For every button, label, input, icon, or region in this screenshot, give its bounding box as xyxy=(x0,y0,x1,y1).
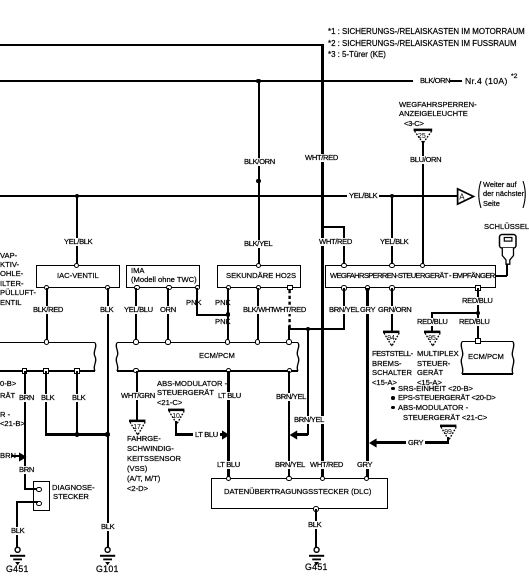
wire: BLK/WHT HO2S to ECM xyxy=(257,288,259,344)
svg-text:A: A xyxy=(459,193,465,202)
label *2 superscript xyxy=(511,73,517,81)
wire: GRY horizontal to main GRY xyxy=(372,441,449,443)
wire: YEL/BLK horizontal H3 xyxy=(0,195,458,197)
label FAHRGESCHWINDIGKEITSSENSOR xyxy=(127,435,161,443)
label BLK (DLC ground) xyxy=(308,521,321,529)
label cut <20-B> fragment xyxy=(0,380,16,388)
label ORN xyxy=(160,306,176,314)
continuation note text xyxy=(483,181,517,189)
junction BLK collector at x77 xyxy=(75,432,79,436)
wire: triangle 10 stub down xyxy=(175,421,177,435)
label ECM/PCM (right) xyxy=(468,353,504,361)
label WHT/RED (main vertical) xyxy=(305,154,338,162)
note *3 xyxy=(328,51,386,59)
label RED/BLU (top) xyxy=(462,297,492,305)
wire: BLU/ORN vertical xyxy=(422,141,424,265)
connector triangle 94 xyxy=(380,328,404,348)
pin ECM-mid bottom WHT/GRN xyxy=(133,368,138,373)
label PNK (HO2S) xyxy=(215,299,231,307)
label RED/BLU (left branch) xyxy=(417,318,447,326)
wire: splice to BRN/YEL run xyxy=(294,433,308,435)
label WHT/RED (HO2S) xyxy=(273,306,306,314)
label LT BLU (vertical) xyxy=(218,392,241,400)
pin ECM-mid top WHT/RED xyxy=(286,339,291,344)
pin WEG top 3 xyxy=(420,263,425,268)
label BLK (G101 wire) xyxy=(101,523,114,531)
pin DLC bottom xyxy=(313,506,318,511)
ground symbol G451 (DLC) xyxy=(307,546,327,568)
wire: ORN IMA to ECM xyxy=(167,288,169,344)
wire: key to immobilizer box xyxy=(506,264,508,276)
pin ECM-right top RED/BLU (square) xyxy=(475,338,480,343)
pin IAC top xyxy=(74,263,79,268)
wire: RED/BLU from immobilizer xyxy=(477,288,479,342)
wire: BLK/ORN -> BLK/YEL vertical to HO2S xyxy=(258,81,260,265)
wire: WHT/RED dashed from HO2S xyxy=(288,288,294,330)
page connector triangle A xyxy=(456,187,478,207)
wire: BLK from connector to G451 xyxy=(16,501,38,503)
pin DLC top LT BLU xyxy=(226,476,231,481)
pin SEK top xyxy=(256,263,261,268)
pin WEG bottom RED/BLU (square) xyxy=(475,285,480,290)
label Nr.4 (10A) xyxy=(465,77,508,85)
wire: splice drop x308 xyxy=(307,329,309,435)
connector triangle 25 (indicator lamp) xyxy=(410,126,438,146)
label ECM/PCM (middle) xyxy=(199,352,235,360)
wire: RED/BLU branch drop to multiplex xyxy=(431,312,433,332)
label BLK (ECM 2) xyxy=(72,394,85,402)
pin WEG bottom 2 xyxy=(365,285,370,290)
wire: WHT/RED branch corner to immobilizer xyxy=(321,226,345,228)
label cut RAET fragment xyxy=(0,392,15,400)
box: DATENUEBERTRAGUNGSSTECKER (DLC) xyxy=(211,478,388,509)
pin DIAGNOSE upper xyxy=(36,487,41,492)
arrow junction into LT BLU run xyxy=(220,430,232,440)
label BRN (upper) xyxy=(19,394,34,402)
label GRY (immobilizer) xyxy=(360,306,375,314)
label cut <21-B> fragment xyxy=(0,420,25,428)
svg-text:17: 17 xyxy=(133,424,141,431)
label BRN (left stub) xyxy=(0,452,16,460)
wire: BRN joining stub from left xyxy=(11,455,21,457)
label MULTIPLEX-STEUERGERAET xyxy=(417,350,459,358)
label BRN/YEL (immobilizer) xyxy=(329,306,359,314)
label SCHLUESSEL xyxy=(484,223,529,231)
label PNK (IMA) xyxy=(186,299,202,307)
bullet list of control units xyxy=(391,387,395,391)
label YEL/BLK (IAC drop) xyxy=(64,238,92,246)
label WHT/RED (DLC) xyxy=(310,461,343,469)
junction H3 to IAC drop xyxy=(75,194,79,198)
pin WEG top 1 xyxy=(341,263,346,268)
ground symbol G101 xyxy=(98,546,118,568)
wire: GRN/ORN from immobilizer xyxy=(391,288,393,332)
label GRY (DLC) xyxy=(357,461,372,469)
label BLK/ORN (fuse feed) xyxy=(420,77,450,85)
ground symbol G451 (left) xyxy=(8,546,28,568)
label WHT/GRN xyxy=(121,392,155,400)
label FESTSTELL-BREMS-SCHALTER xyxy=(372,350,413,358)
connector triangle 17 xyxy=(126,417,150,437)
label YEL/BLK (immobilizer drop) xyxy=(380,238,408,246)
wire: BRN/YEL from immobilizer down xyxy=(343,288,345,329)
wire: LT BLU branch horizontal xyxy=(175,433,223,435)
pin ECM-left bottom BLK 2 (square) xyxy=(74,368,79,373)
box: ECM/PCM right section (torn both edges) xyxy=(462,341,513,342)
label BLK (G451 wire) xyxy=(11,527,24,535)
wire: PNK from HO2S to ECM xyxy=(227,288,229,344)
wire: WHT/RED main vertical xyxy=(321,44,323,479)
label G101 xyxy=(96,565,119,573)
box: WEGFAHRSPERREN-STEUERGERAET - EMPFAENGER xyxy=(325,265,496,289)
junction H3 to immobilizer drop xyxy=(390,194,394,198)
wire: BLK from ECM pin 3 xyxy=(76,371,78,436)
wire: WHT/RED solid into ECM xyxy=(288,326,290,343)
wire: triangle 99 stub down xyxy=(447,437,449,444)
wire: BRN from ECM xyxy=(24,371,26,490)
wire: BRN into connector xyxy=(24,488,38,490)
label WHT/RED (branch) xyxy=(319,238,352,246)
junction on splice horizontal xyxy=(306,327,310,331)
label DIAGNOSE-STECKER xyxy=(52,484,95,492)
pin WEG bottom 3 xyxy=(389,285,394,290)
pin ECM-mid top PNK xyxy=(225,339,230,344)
wire: top feed horizontal H1 xyxy=(0,44,323,46)
pin ECM-mid bottom BRN/YEL xyxy=(287,368,292,373)
label cut R - fragment xyxy=(0,411,10,419)
key symbol xyxy=(495,230,521,268)
wire: YEL/BLK drop to immobilizer xyxy=(391,196,393,265)
wire: BRN/YEL from ECM to DLC xyxy=(288,371,290,479)
pin ECM-left top (BLK/RED) xyxy=(44,339,49,344)
svg-text:99: 99 xyxy=(444,429,452,436)
svg-text:95: 95 xyxy=(428,335,436,342)
wire: YEL/BLU IMA to ECM xyxy=(135,288,137,344)
box: IMA xyxy=(126,265,200,288)
wire: GRY from immobilizer to DLC xyxy=(366,288,368,479)
wire: BLK from DLC to G451 xyxy=(315,509,317,548)
wire: PNK from IMA, jog right xyxy=(196,288,198,316)
label G451 (left) xyxy=(6,565,29,573)
pin SEK bottom 2 xyxy=(256,285,261,290)
pin WEG top 2 xyxy=(389,263,394,268)
wire: BLK/RED IAC to ECM xyxy=(46,288,48,343)
label BRN (lower) xyxy=(19,466,34,474)
label GRN/ORN xyxy=(378,306,411,314)
label BRN/YEL (splice drop) xyxy=(294,416,324,424)
label BLK/WHT xyxy=(243,306,274,314)
label BLK/YEL xyxy=(244,240,272,248)
splice dot on BLK/ORN wire xyxy=(256,179,260,183)
pin ECM-mid bottom LT BLU xyxy=(226,368,231,373)
pin DLC top WHT/RED xyxy=(320,476,325,481)
pin IMA bottom 2 xyxy=(166,285,171,290)
wire: BLK from IAC to G101 xyxy=(107,288,109,548)
wire: RED/BLU branch horizontal xyxy=(431,312,478,315)
box: ECM/PCM left section (torn right edge) xyxy=(0,342,95,343)
label LT BLU (branch) xyxy=(193,431,220,439)
pin IAC bottom 2 xyxy=(105,285,110,290)
label ABS-MODULATOR-STEUERGERAET (mid) xyxy=(157,380,227,388)
label BRN/YEL (DLC) xyxy=(275,461,305,469)
label G451 (DLC) xyxy=(305,563,328,571)
note *1 xyxy=(328,28,525,36)
label YEL/BLU xyxy=(124,306,153,314)
box: DIAGNOSE-STECKER xyxy=(33,481,50,511)
arrow junction BRN xyxy=(17,452,29,462)
box: SEKUNDAERE HO2S xyxy=(217,265,301,288)
pin ECM-mid top BLK/WHT xyxy=(255,339,260,344)
label RED/BLU (right branch) xyxy=(459,318,489,326)
wire: YEL/BLK drop to IAC valve xyxy=(76,196,78,265)
pin SEK bottom 3 (square) xyxy=(287,285,292,290)
wire: WHT/GRN from ECM xyxy=(136,371,138,420)
label EVAP canister vent valve (cut at left edge) xyxy=(0,252,17,260)
wire: BLK/ORN feed horizontal H2 xyxy=(0,80,413,82)
junction BLK collector at x108 xyxy=(105,432,109,436)
label WEGFAHRSPERREN-ANZEIGELEUCHTE xyxy=(399,101,477,109)
pin IMA bottom 3 xyxy=(195,285,200,290)
label GRY (branch) xyxy=(406,439,425,447)
wire: stub to fuse Nr.4 xyxy=(450,80,462,82)
pin IAC bottom 1 xyxy=(44,285,49,290)
connector triangle 99 xyxy=(437,422,461,442)
pin DIAGNOSE lower xyxy=(36,501,41,506)
label BLK/RED xyxy=(33,306,63,314)
label LT BLU (DLC) xyxy=(217,461,240,469)
label BLK (IAC ground) xyxy=(100,306,113,314)
connector triangle 95 xyxy=(421,328,445,348)
pin DLC top GRY xyxy=(364,476,369,481)
svg-text:25: 25 xyxy=(418,133,426,140)
label BLK/ORN (vertical) xyxy=(244,158,275,166)
connector triangle 10 xyxy=(165,406,189,426)
pin WEG bottom 1 xyxy=(341,285,346,290)
wire: splice horizontal at y329 xyxy=(289,328,345,331)
wire: BLK from ECM pin 2 xyxy=(45,371,47,436)
box: IAC-VENTIL xyxy=(36,265,120,289)
big parentheses for continuation note xyxy=(474,180,529,210)
label BRN/YEL (ECM) xyxy=(276,393,306,401)
label BLK (ECM 1) xyxy=(41,394,54,402)
junction PNK wires xyxy=(226,312,230,316)
label YEL/BLK on H3 xyxy=(347,192,379,200)
pin DLC top BRN/YEL xyxy=(286,476,291,481)
pin ECM-left bottom BLK 1 (square) xyxy=(43,368,48,373)
label BLU/ORN xyxy=(410,156,441,164)
pin ECM-left bottom BRN (square) xyxy=(22,368,27,373)
label PNK (joined) xyxy=(215,318,231,326)
pin SEK bottom 1 xyxy=(226,285,231,290)
box: ECM/PCM middle section (torn both edges) xyxy=(117,342,298,343)
wire: LT BLU from ECM to DLC xyxy=(227,371,229,479)
arrow junction into BRN/YEL run xyxy=(288,430,300,440)
note *2 xyxy=(328,40,517,48)
svg-text:94: 94 xyxy=(387,335,395,342)
junction RED/BLU xyxy=(476,311,480,315)
pin IMA bottom 1 xyxy=(134,285,139,290)
pin ECM-mid top YEL/BLU xyxy=(133,339,138,344)
arrow junction into GRY run xyxy=(367,438,379,448)
junction on H2 at BLK/ORN drop xyxy=(256,79,260,83)
pin ECM-mid top ORN xyxy=(165,339,170,344)
wire: BLK collector horizontal xyxy=(45,433,108,435)
svg-text:10: 10 xyxy=(172,413,180,420)
